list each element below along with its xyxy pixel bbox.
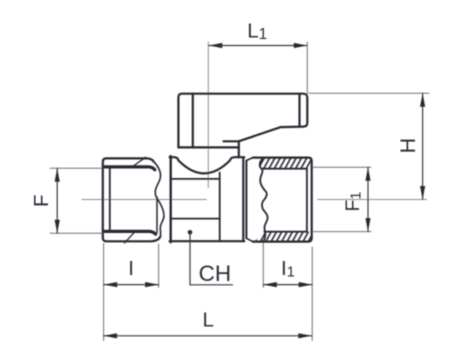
dimension H bottom arrow xyxy=(420,186,425,200)
dimension I1 left extension xyxy=(262,244,264,288)
dimension F1 bottom arrow xyxy=(365,218,370,232)
body top edge with dome arc xyxy=(170,157,245,173)
left port hex shoulder top thick xyxy=(105,167,155,170)
left port break wavy line xyxy=(154,162,164,237)
dimension F bottom extension xyxy=(50,232,102,234)
left port bottom chamfer diagonal xyxy=(125,232,135,243)
left port hex inner vertical xyxy=(109,167,111,232)
dimension I right extension xyxy=(158,244,160,288)
dimension F1 line xyxy=(367,167,369,231)
dimension F bottom arrow xyxy=(55,220,60,234)
dimension F1 top arrow xyxy=(365,167,370,181)
right port bore line bottom xyxy=(264,231,307,233)
left port hex right edge lower stub xyxy=(156,197,158,233)
svg-text:L1: L1 xyxy=(247,20,267,43)
leader CH horizontal xyxy=(190,284,233,286)
right port thread end vertical xyxy=(306,169,308,232)
handle inner left vertical xyxy=(192,94,194,148)
svg-text:I1: I1 xyxy=(281,257,295,281)
dimension F top extension xyxy=(50,167,102,169)
dimension F1 top extension xyxy=(313,166,371,168)
handle tab vertical xyxy=(238,141,240,157)
wire centerline horizontal right xyxy=(318,199,427,201)
dimension F top arrow xyxy=(55,168,60,182)
svg-text:H: H xyxy=(396,138,420,154)
svg-text:F1: F1 xyxy=(342,192,365,212)
dimension H extension top xyxy=(309,92,429,94)
left port hex nut silhouette xyxy=(103,158,161,241)
body inner horizontal upper xyxy=(172,178,220,180)
dimension I left extension xyxy=(103,244,105,341)
body bottom edge xyxy=(170,240,245,242)
right port hatch top band xyxy=(260,158,312,169)
svg-text:CH: CH xyxy=(199,261,232,286)
left port top chamfer diagonal xyxy=(131,157,146,167)
node CH reference dot xyxy=(188,230,193,235)
dimension L line xyxy=(104,335,312,337)
body inner horizontal lower xyxy=(172,218,220,220)
dimension I1 line xyxy=(263,284,312,286)
body inner vertical xyxy=(219,173,221,241)
dimension I1 right arrow xyxy=(299,282,313,287)
dimension F line xyxy=(56,168,58,233)
right port bottom chamfer xyxy=(246,238,252,241)
right port top edge xyxy=(253,158,312,242)
dimension I line xyxy=(104,284,159,286)
dimension L1 line xyxy=(209,45,307,47)
wire centerline horizontal left xyxy=(82,199,207,201)
dimension H top arrow xyxy=(420,93,425,107)
dimension I left arrow xyxy=(104,282,118,287)
left port hex shoulder bottom thick xyxy=(105,231,156,234)
svg-text:F: F xyxy=(30,194,53,207)
right port hatch bottom band xyxy=(254,232,312,242)
body left edge xyxy=(169,156,171,242)
dimension L1 right extension xyxy=(306,42,308,95)
dimension L left arrow xyxy=(104,333,118,338)
dimension F1 bottom extension xyxy=(313,231,371,233)
right port bore line top xyxy=(262,168,307,170)
right port break wavy line xyxy=(260,158,268,243)
right port left edge xyxy=(245,161,247,239)
body right edge xyxy=(242,157,244,241)
right port top chamfer xyxy=(246,158,252,161)
handle inner right vertical xyxy=(298,94,300,127)
dimension L1 left arrow xyxy=(209,43,223,48)
dimension H line xyxy=(422,93,424,199)
handle lever outline xyxy=(178,94,307,148)
dimension I1 right extension xyxy=(311,247,313,341)
dimension I right arrow xyxy=(145,282,159,287)
wire stem axis vertical xyxy=(207,42,209,188)
dimension L right arrow xyxy=(298,333,312,338)
dimension L1 right arrow xyxy=(294,43,308,48)
handle arm bottom horizontal xyxy=(178,146,238,148)
dimension I1 left arrow xyxy=(263,282,277,287)
leader CH vertical xyxy=(189,232,191,284)
left port top edge right corner xyxy=(146,158,154,161)
svg-text:L: L xyxy=(203,309,214,332)
svg-text:I: I xyxy=(128,257,134,280)
